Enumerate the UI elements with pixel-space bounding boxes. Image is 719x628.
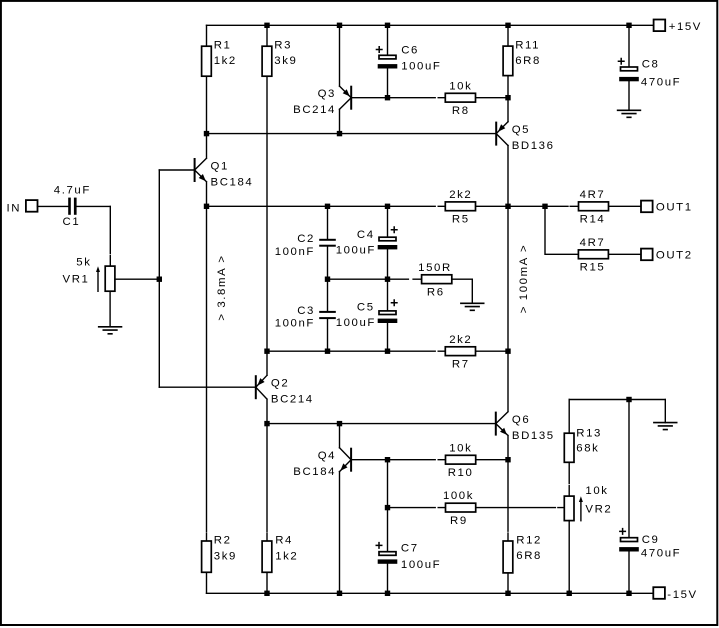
resistor R13 68k bbox=[564, 400, 602, 497]
terminal -15V bbox=[653, 587, 697, 601]
transistor Q4 BC184 bbox=[293, 424, 351, 594]
svg-text:-15V: -15V bbox=[667, 589, 697, 601]
label current 100mA bbox=[518, 244, 530, 314]
resistor R1 bbox=[202, 25, 237, 133]
svg-text:100uF: 100uF bbox=[336, 244, 376, 256]
terminal +15V bbox=[654, 20, 702, 33]
svg-text:150R: 150R bbox=[418, 262, 452, 274]
label current 3.8mA bbox=[216, 254, 228, 320]
transistor Q5 BD136 bbox=[496, 98, 554, 207]
svg-text:BC214: BC214 bbox=[271, 394, 314, 406]
svg-text:R5: R5 bbox=[452, 214, 470, 226]
resistor R14 4R7 bbox=[579, 189, 609, 226]
svg-text:R3: R3 bbox=[274, 40, 292, 52]
svg-text:R6: R6 bbox=[427, 287, 445, 299]
wire C2-C4 junction rail with R6 bbox=[325, 277, 473, 282]
svg-text:C1: C1 bbox=[63, 216, 81, 228]
capacitor C1 4.7uF bbox=[38, 184, 111, 228]
terminal OUT2 bbox=[641, 249, 693, 262]
svg-text:2k2: 2k2 bbox=[449, 189, 472, 201]
potentiometer VR1 5k bbox=[63, 256, 115, 291]
svg-text:C3: C3 bbox=[297, 305, 315, 317]
svg-text:> 3.8mA >: > 3.8mA > bbox=[216, 254, 228, 320]
svg-text:OUT2: OUT2 bbox=[656, 250, 693, 262]
resistor R4 bbox=[262, 424, 298, 594]
svg-text:R4: R4 bbox=[275, 535, 293, 547]
wire mid-left rail Q1/Q5 base row bbox=[204, 131, 495, 136]
resistor R5 2k2 bbox=[445, 189, 475, 226]
svg-text:4.7uF: 4.7uF bbox=[54, 184, 91, 196]
capacitor C3 100nF bbox=[275, 279, 336, 351]
transistor Q3 BC214 bbox=[293, 25, 351, 133]
svg-text:470uF: 470uF bbox=[641, 547, 681, 559]
wire Q2 collector rail to Q6 base bbox=[264, 421, 495, 426]
ground below R6 bbox=[460, 303, 484, 310]
svg-text:100uF: 100uF bbox=[401, 559, 441, 571]
resistor R10 10k bbox=[446, 442, 476, 479]
wire +15V top rail bbox=[207, 23, 654, 28]
transistor Q2 BC214 bbox=[159, 351, 313, 423]
resistor R15 4R7 bbox=[578, 237, 608, 274]
resistor R2 bbox=[202, 206, 237, 593]
svg-text:BC184: BC184 bbox=[293, 466, 336, 478]
ground below C8 bbox=[617, 110, 641, 117]
svg-text:OUT1: OUT1 bbox=[656, 202, 693, 214]
svg-text:4R7: 4R7 bbox=[580, 189, 606, 201]
wire lower mid rail with R7 bbox=[264, 349, 510, 354]
resistor R12 bbox=[503, 460, 542, 594]
svg-text:68k: 68k bbox=[576, 443, 599, 455]
svg-text:C2: C2 bbox=[297, 233, 315, 245]
svg-text:R12: R12 bbox=[516, 535, 542, 547]
terminal IN bbox=[7, 200, 38, 214]
svg-text:10k: 10k bbox=[585, 485, 608, 497]
svg-text:R1: R1 bbox=[214, 40, 232, 52]
transistor Q1 BC184 bbox=[159, 134, 253, 207]
svg-text:100uF: 100uF bbox=[336, 317, 376, 329]
wire Q1 base to Q2 base vertical link bbox=[157, 170, 162, 387]
svg-text:6R8: 6R8 bbox=[516, 550, 542, 562]
svg-text:BC214: BC214 bbox=[293, 104, 336, 116]
wire Q3 base rail with R8 bbox=[352, 95, 510, 100]
svg-text:BC184: BC184 bbox=[211, 176, 254, 188]
svg-text:BD135: BD135 bbox=[512, 430, 555, 442]
svg-text:100uF: 100uF bbox=[401, 60, 441, 72]
wire C1 down to VR1 bbox=[109, 206, 111, 266]
svg-text:R2: R2 bbox=[214, 535, 232, 547]
svg-text:+15V: +15V bbox=[669, 21, 702, 33]
resistor R8 10k bbox=[445, 80, 475, 117]
svg-text:10k: 10k bbox=[449, 80, 472, 92]
svg-text:R14: R14 bbox=[580, 214, 606, 226]
capacitor C2 100nF bbox=[275, 206, 336, 279]
svg-text:BD136: BD136 bbox=[512, 140, 555, 152]
ground right bbox=[653, 423, 677, 430]
capacitor C6 100uF bbox=[376, 25, 442, 97]
wire Q4 base rail with R10 bbox=[352, 457, 511, 462]
wire VR1 to ground bbox=[109, 291, 111, 327]
wire VR2 to bottom rail bbox=[568, 521, 570, 594]
svg-text:100k: 100k bbox=[443, 490, 474, 502]
wire branch to OUT2 row bbox=[545, 206, 641, 254]
resistor R3 bbox=[262, 25, 297, 351]
resistor R11 bbox=[503, 25, 541, 97]
svg-text:Q2: Q2 bbox=[271, 378, 289, 390]
wire ground rail right section bbox=[569, 397, 665, 402]
svg-text:Q4: Q4 bbox=[318, 450, 336, 462]
svg-text:Q6: Q6 bbox=[512, 414, 530, 426]
svg-text:Q1: Q1 bbox=[211, 160, 229, 172]
svg-text:1k2: 1k2 bbox=[275, 551, 298, 563]
svg-text:R15: R15 bbox=[580, 262, 606, 274]
svg-text:6R8: 6R8 bbox=[515, 55, 541, 67]
wire ground rail drop bbox=[664, 400, 666, 423]
wire -15V bottom rail bbox=[207, 591, 654, 596]
svg-text:R7: R7 bbox=[452, 359, 470, 371]
svg-text:R11: R11 bbox=[515, 40, 540, 52]
svg-text:C6: C6 bbox=[401, 44, 419, 56]
svg-text:470uF: 470uF bbox=[641, 77, 681, 89]
svg-text:3k9: 3k9 bbox=[214, 551, 237, 563]
resistor R6 150R bbox=[418, 262, 452, 299]
svg-text:100nF: 100nF bbox=[275, 317, 315, 329]
svg-text:1k2: 1k2 bbox=[214, 55, 237, 67]
svg-text:100nF: 100nF bbox=[275, 246, 315, 258]
svg-text:R9: R9 bbox=[450, 515, 468, 527]
svg-text:10k: 10k bbox=[449, 442, 472, 454]
terminal OUT1 bbox=[641, 201, 693, 214]
svg-text:2k2: 2k2 bbox=[449, 334, 472, 346]
wire emitter rail Q1 row with R5 R14 bbox=[204, 204, 641, 209]
capacitor C5 100uF bbox=[336, 279, 398, 351]
wire Q5 collector vertical bbox=[507, 206, 509, 351]
svg-text:R8: R8 bbox=[452, 105, 470, 117]
svg-text:C8: C8 bbox=[642, 59, 660, 71]
svg-text:> 100mA >: > 100mA > bbox=[518, 244, 530, 314]
capacitor C8 470uF bbox=[618, 25, 682, 110]
svg-text:R13: R13 bbox=[576, 427, 602, 439]
capacitor C9 470uF bbox=[619, 400, 681, 594]
wire R6 to ground bbox=[471, 279, 473, 303]
potentiometer VR2 10k bbox=[564, 485, 612, 521]
svg-text:3k9: 3k9 bbox=[274, 55, 297, 67]
svg-text:R10: R10 bbox=[448, 467, 474, 479]
resistor R7 2k2 bbox=[445, 334, 475, 371]
svg-text:VR1: VR1 bbox=[63, 274, 90, 286]
capacitor C7 100uF bbox=[376, 508, 442, 594]
wire R9 rail to VR2 wiper bbox=[385, 505, 565, 510]
ground below VR1 bbox=[98, 327, 122, 334]
svg-text:Q3: Q3 bbox=[318, 88, 336, 100]
transistor Q6 BD135 bbox=[496, 351, 555, 460]
wire VR1 wiper bbox=[115, 278, 159, 280]
svg-text:C5: C5 bbox=[357, 301, 375, 313]
svg-text:5k: 5k bbox=[76, 256, 91, 268]
svg-text:VR2: VR2 bbox=[585, 503, 612, 515]
wire C4 column junction down to R9 rail bbox=[387, 460, 389, 508]
resistor R9 100k bbox=[443, 490, 476, 527]
svg-text:C9: C9 bbox=[642, 534, 660, 546]
svg-text:IN: IN bbox=[7, 202, 22, 214]
svg-text:C4: C4 bbox=[357, 229, 375, 241]
svg-text:Q5: Q5 bbox=[512, 124, 530, 136]
svg-text:C7: C7 bbox=[401, 542, 419, 554]
svg-text:4R7: 4R7 bbox=[580, 237, 606, 249]
capacitor C4 100uF bbox=[336, 206, 398, 279]
